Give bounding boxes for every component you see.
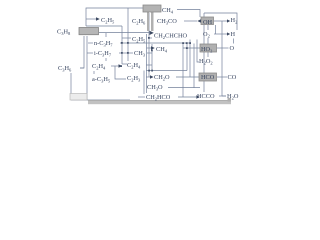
arrowhead on C2H4 junction <box>119 64 123 67</box>
wire C2H5 mid right stub <box>148 37 152 39</box>
svg-text:H: H <box>231 31 236 38</box>
wire SB1 down x87 to bottom <box>86 36 88 100</box>
wire CH2O to HCO <box>176 76 199 78</box>
wire CH3CO line <box>184 20 197 22</box>
thick gray main path bar bottom <box>88 101 231 104</box>
wire CH2HCO left stub <box>138 96 145 98</box>
junction dots <box>120 37 191 72</box>
svg-text:CH3CO: CH3CO <box>157 18 177 26</box>
wire HCO to CO <box>217 76 227 78</box>
text labels <box>57 7 239 102</box>
svg-text:HCCO: HCCO <box>197 93 215 100</box>
wire drop x194 to CH3O row <box>193 44 195 89</box>
wire OH to O2 tick <box>207 25 209 30</box>
wire CH3 right <box>147 52 152 54</box>
svg-text:H2O: H2O <box>227 93 239 101</box>
gray box OH <box>201 17 214 25</box>
wire HO2 to H2O2 tick <box>207 52 209 57</box>
svg-text:CH2CHCHO: CH2CHCHO <box>154 33 187 41</box>
svg-text:O: O <box>230 45 235 52</box>
wire radical box top <box>204 13 237 30</box>
thick gray nub up to H2O <box>228 98 232 102</box>
arrowhead left at OH <box>197 19 201 23</box>
svg-text:CO: CO <box>228 74 237 81</box>
wire tick x215 to O2 row <box>215 25 217 34</box>
gray box HO2 <box>200 44 217 52</box>
arrowhead into CH4 mid <box>151 46 155 49</box>
arrowhead into CH2O <box>150 75 154 78</box>
wire i-C3H7 down tick to C2H4 <box>105 58 107 61</box>
arrowhead into H <box>227 32 230 35</box>
wire HCCO to H2O <box>219 95 226 97</box>
wire C2H4 label to junction <box>111 65 122 67</box>
wire C2H5 mid left stub <box>122 37 131 39</box>
wire arrow line to CH4 mid <box>147 47 152 49</box>
svg-text:OH: OH <box>203 19 213 26</box>
gray box HCO <box>199 73 217 81</box>
wire nC3H7 long <box>120 42 190 44</box>
wire nC3H7 stub <box>88 42 93 44</box>
arrowhead to C2H5 <box>96 17 100 21</box>
wire C2H4 row corner <box>122 63 127 65</box>
wire C3H6 link <box>80 67 84 69</box>
svg-text:HCO: HCO <box>201 74 215 81</box>
gray box CH3 (top) <box>143 5 161 12</box>
wire drop x183 to HCCO row <box>182 43 184 97</box>
wire H to O vertical <box>233 39 235 44</box>
wire SB1 down x84 to C3H6 <box>80 36 84 68</box>
wire x146 vertical <box>146 34 148 93</box>
wire y70 bus line <box>146 70 187 72</box>
wire C3H6 down <box>70 73 72 100</box>
wire drop x197 to H2O2 <box>197 40 199 63</box>
wire O2 to HO2 tick <box>207 38 209 44</box>
wire x144 vertical <box>143 71 145 95</box>
wire into HO2 box <box>183 47 200 49</box>
wire CO down to H2O line <box>222 95 226 97</box>
wire OH to H2 <box>214 20 227 22</box>
wire x149 vertical from CH3 box <box>148 13 150 77</box>
wire CH4 to radical box <box>177 10 200 18</box>
wire x114 vertical to C2H3 row <box>115 66 126 79</box>
wire O2 to H <box>214 33 227 35</box>
wire x152 vertical <box>151 44 153 71</box>
wire C2H4 right <box>146 64 152 66</box>
wire tick x106 to nC3H7 <box>105 33 107 37</box>
wire HO2 to O <box>217 47 229 49</box>
wire CH3O right <box>168 87 200 89</box>
wire iC3H7 to CH3 <box>119 52 133 54</box>
wire y26 lid <box>86 25 122 27</box>
thick gray vertical strip right from CH3 box <box>151 12 154 31</box>
thick gray vertical strip left from CH3 box <box>147 12 149 31</box>
wire arrow to C2H5 <box>86 18 96 20</box>
wire drop x187 to y70 bus <box>186 43 188 71</box>
wire divider x128 <box>127 8 129 61</box>
wire drop x190 to CH2O row <box>189 40 191 78</box>
wire bottom line <box>71 99 130 101</box>
svg-text:CH3O: CH3O <box>147 84 163 92</box>
wire x222 collector vertical <box>221 21 223 96</box>
pale box bottom left <box>70 94 87 101</box>
wire C2H3 to CH2O <box>146 76 153 78</box>
svg-text:CH2HCO: CH2HCO <box>146 94 171 102</box>
wire SB1 right to divider <box>99 32 149 34</box>
svg-text:CH2O: CH2O <box>154 74 170 82</box>
wire x122 vertical <box>121 26 123 64</box>
gray box fuel C3H8 <box>79 28 99 35</box>
wire radical box left edge <box>203 13 205 92</box>
arrowhead right to HCCO <box>196 95 200 98</box>
wire iC3H7 stub <box>87 52 93 54</box>
arrowhead into CH2CHCHO <box>150 31 154 35</box>
arrowhead into H2 <box>227 19 230 22</box>
wire top box left <box>86 8 143 26</box>
thick gray main path bar top edge <box>88 99 231 102</box>
wire C2H4 down tick to aC3H5 <box>93 71 95 74</box>
wire CH2HCO to HCCO <box>178 96 196 98</box>
